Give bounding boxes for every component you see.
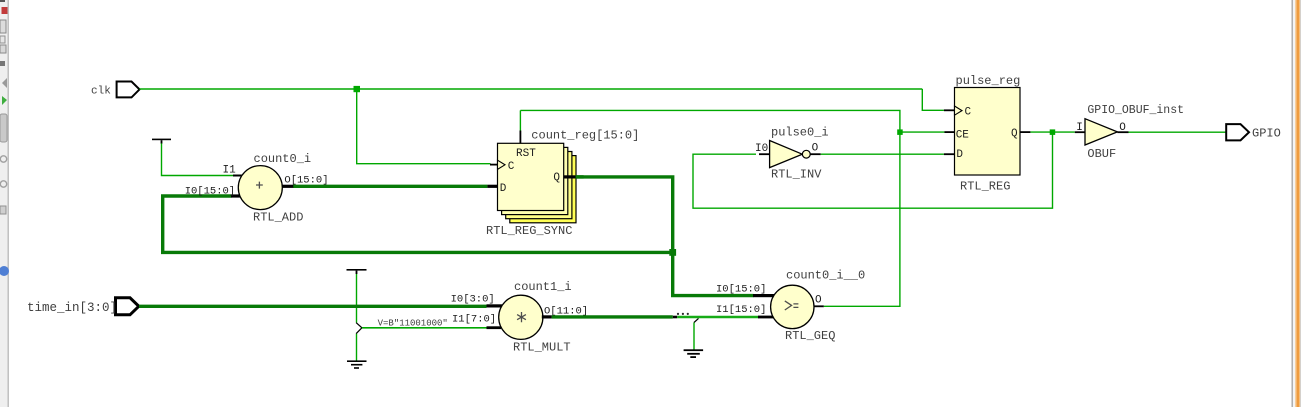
svg-text:count1_i: count1_i [514, 280, 572, 294]
wire clk horizontal [140, 88, 923, 90]
pin stub obuf O [1117, 131, 1128, 133]
pin stub mult I1 [487, 326, 502, 329]
wire pulse0 to pulse_reg D [821, 153, 944, 155]
svg-text:count_reg[15:0]: count_reg[15:0] [531, 129, 639, 143]
adder RTL_ADD count0_i [238, 166, 282, 210]
input port time_in[3:0] [116, 298, 139, 315]
tap chevron const2 [356, 323, 362, 334]
vcc constant bar (adder I1) [152, 139, 171, 141]
svg-text:I1: I1 [223, 165, 237, 177]
bus time_in to mult I0 [139, 305, 487, 308]
bus mult O to ellipsis [552, 315, 673, 318]
bus adder O to count_reg D [293, 185, 487, 188]
pin stub geq I1 [758, 316, 774, 319]
wire const2 vertical upper [356, 274, 358, 323]
bus width change mark [673, 316, 677, 319]
left toolbar strip [0, 0, 9, 407]
svg-text:pulse_reg: pulse_reg [956, 74, 1021, 88]
svg-text:I: I [1076, 122, 1083, 134]
svg-text:RTL_REG: RTL_REG [960, 180, 1010, 194]
svg-text:I0[15:0]: I0[15:0] [716, 284, 766, 296]
wire const1 to adder I1 [162, 143, 234, 175]
buffer OBUF GPIO_OBUF_inst [1085, 119, 1117, 145]
wire to ground right [693, 323, 695, 350]
comparator RTL_GEQ count0_i__0 [771, 285, 814, 328]
right scrollbar [1292, 0, 1301, 407]
svg-text:I1[15:0]: I1[15:0] [716, 304, 766, 316]
svg-text:Q: Q [1011, 128, 1018, 140]
svg-text:O[15:0]: O[15:0] [284, 175, 328, 187]
pin stub adder I0 [231, 194, 241, 197]
pin stub adder O [282, 185, 293, 188]
ellipsis dots [677, 313, 689, 315]
svg-text:GPIO: GPIO [1252, 127, 1281, 141]
pin stub adder I1 [233, 175, 243, 177]
multiplier RTL_MULT count1_i [499, 295, 543, 339]
junction count0 at CE [897, 129, 903, 135]
wire clk branch to count_reg C [357, 91, 491, 164]
svg-text:RTL_INV: RTL_INV [771, 168, 822, 182]
svg-text:C: C [508, 161, 515, 173]
tap diagonal gnd2 [694, 318, 699, 322]
pin stub inverter O [810, 153, 821, 155]
junction pulse_reg Q [1050, 129, 1056, 135]
pin stub mult I0 [487, 304, 503, 307]
svg-text:I0[15:0]: I0[15:0] [185, 186, 235, 198]
svg-text:GPIO_OBUF_inst: GPIO_OBUF_inst [1087, 104, 1184, 117]
pin stub pulse_reg D [944, 153, 955, 155]
pin stub count_reg RST [520, 131, 522, 144]
svg-text:RST: RST [516, 148, 536, 160]
pin stub pulse_reg Q [1020, 131, 1030, 133]
pin stub geq I0 [753, 294, 774, 297]
pin stub geq O [814, 305, 824, 307]
svg-text:clk: clk [91, 86, 111, 98]
svg-text:I1[7:0]: I1[7:0] [452, 314, 496, 326]
svg-text:Q: Q [553, 172, 560, 184]
bus count_reg Q feedback to adder I0 [163, 177, 754, 296]
vcc constant bar (mult I1) [347, 269, 367, 271]
wire obuf O to GPIO port [1129, 131, 1227, 133]
wire const2 to mult I1 [362, 327, 487, 329]
pin stub count_reg Q [564, 175, 575, 178]
wire count0 net geq O to RST and CE [520, 110, 944, 306]
wire count0 net to RST [519, 110, 521, 130]
pin stub obuf I [1075, 131, 1085, 133]
svg-text:D: D [500, 183, 507, 195]
svg-text:D: D [956, 149, 963, 161]
output port GPIO [1226, 124, 1249, 140]
pin stub count_reg C [490, 164, 498, 166]
svg-text:C: C [965, 106, 972, 118]
svg-text:O: O [812, 143, 819, 155]
ground symbol right [684, 349, 704, 358]
input port clk [117, 82, 140, 98]
svg-text:O: O [815, 295, 822, 307]
register pulse_reg RTL_REG [955, 88, 1021, 176]
svg-text:I0: I0 [755, 143, 768, 155]
pin stub pulse_reg CE [944, 131, 954, 133]
svg-text:count0_i: count0_i [254, 152, 312, 166]
svg-text:pulse0_i: pulse0_i [771, 125, 829, 139]
svg-text:V=B″11001000″: V=B″11001000″ [378, 318, 448, 328]
wire const2 vertical lower [356, 334, 358, 361]
pin stub count_reg D [487, 185, 498, 188]
svg-text:RTL_REG_SYNC: RTL_REG_SYNC [486, 224, 572, 238]
pin stub pulse_reg C [944, 109, 955, 111]
wire pulse_reg Q net [693, 132, 1075, 208]
ground symbol left [347, 360, 367, 368]
svg-text:time_in[3:0]: time_in[3:0] [27, 301, 117, 315]
svg-text:CE: CE [956, 129, 970, 141]
pin stub inverter I0 [759, 153, 770, 155]
svg-text:RTL_ADD: RTL_ADD [253, 211, 303, 225]
wire expanded bus to geq I1 [677, 316, 758, 319]
junction feedback bus [669, 249, 676, 256]
pin stub mult O [542, 315, 552, 318]
pin stub count_reg Q over stack [564, 175, 584, 178]
inverter RTL_INV pulse0_i [770, 141, 811, 168]
svg-text:I0[3:0]: I0[3:0] [451, 294, 495, 306]
svg-text:RTL_GEQ: RTL_GEQ [785, 329, 835, 343]
svg-text:RTL_MULT: RTL_MULT [513, 341, 571, 355]
svg-text:count0_i__0: count0_i__0 [786, 269, 865, 283]
svg-text:OBUF: OBUF [1087, 147, 1116, 161]
wire clk down to pulse_reg C [922, 89, 944, 110]
register stack count_reg RTL_REG_SYNC [498, 143, 577, 223]
junction clk branch [354, 86, 361, 92]
